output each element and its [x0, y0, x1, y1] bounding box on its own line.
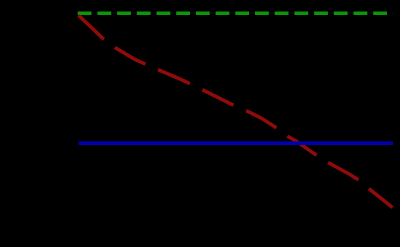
blue solid horizontal line: [79, 141, 393, 145]
dark red dashed descending curve: [79, 15, 393, 207]
green dashed asymptote line: [78, 12, 393, 16]
